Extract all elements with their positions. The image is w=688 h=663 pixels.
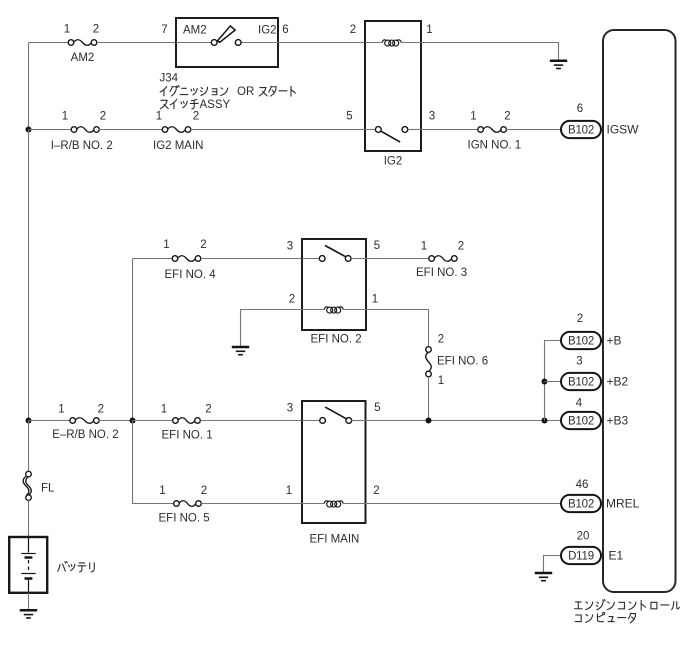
wire to ground [544,556,562,573]
wire to ground [241,310,303,347]
coil EFI MAIN [324,501,343,507]
label engine control computer [574,600,679,611]
wire [241,42,278,44]
wire riser to +B [545,341,562,421]
wire [366,258,429,260]
wire [366,310,429,347]
svg-text:1: 1 [58,404,64,416]
battery internals [21,537,35,593]
ground EFI NO.2 [232,347,249,355]
svg-text:IG2: IG2 [384,156,403,168]
coil EFI NO.2 [324,307,343,313]
svg-text:2: 2 [100,111,106,123]
junction dot left rail row E [26,418,32,424]
svg-text:E–R/B NO. 2: E–R/B NO. 2 [52,429,118,441]
wire [97,42,176,44]
wire [28,421,30,472]
svg-text:2: 2 [201,485,207,497]
wire [506,129,561,131]
wire [366,420,562,422]
svg-text:D119: D119 [568,551,594,563]
svg-text:20: 20 [577,531,590,543]
relay IG2 box [365,21,421,151]
svg-text:MREL: MREL [606,497,640,511]
svg-text:3: 3 [287,403,293,415]
svg-text:IGN NO. 1: IGN NO. 1 [468,140,522,152]
wire left rail upper [28,43,30,130]
wire [351,258,366,260]
svg-text:EFI NO. 5: EFI NO. 5 [159,513,210,525]
fusible link FL [23,471,31,500]
svg-text:EFI NO. 4: EFI NO. 4 [165,269,217,281]
svg-text:2: 2 [438,334,444,346]
wire [365,42,382,44]
svg-text:2: 2 [93,24,99,36]
wire [99,420,131,422]
wire elbow x132 [133,421,174,504]
svg-text:1: 1 [426,24,432,36]
switch contact EFI NO.2 [319,246,351,262]
junction dot x132 [130,418,136,424]
switch contact EFI MAIN [320,407,352,423]
svg-text:5: 5 [374,402,380,414]
svg-text:ASSY: ASSY [200,99,231,111]
svg-text:46: 46 [576,479,589,491]
svg-text:1: 1 [421,241,427,253]
label switch assy [160,99,198,109]
svg-text:J34: J34 [160,73,179,85]
svg-text:1: 1 [163,239,169,251]
svg-text:B102: B102 [568,125,594,137]
svg-text:FL: FL [41,483,55,495]
svg-text:1: 1 [62,111,68,123]
wire to ground [421,43,559,61]
svg-text:EFI NO. 3: EFI NO. 3 [416,267,467,279]
coil IG2 [382,40,401,46]
svg-text:IGSW: IGSW [607,123,640,137]
svg-text:7: 7 [161,24,167,36]
svg-text:B102: B102 [568,377,594,389]
junction dot x428 [426,418,432,424]
svg-text:2: 2 [458,241,464,253]
svg-text:2: 2 [193,111,199,123]
svg-text:1: 1 [64,24,70,36]
wire [201,503,302,505]
svg-text:3: 3 [576,356,582,368]
wire [343,309,366,311]
svg-text:+B3: +B3 [607,414,629,428]
relay EFI NO.2 box [302,239,366,330]
wire [29,42,69,44]
svg-text:EFI MAIN: EFI MAIN [310,534,360,546]
junction dot +B2 [542,379,548,385]
wire [278,42,365,44]
fuse EFI NO.3 [429,256,457,262]
svg-text:2: 2 [373,485,379,497]
wire [366,503,562,505]
svg-text:IG2: IG2 [258,25,277,37]
ignition switch J34 box [176,18,278,67]
wire [428,377,430,421]
wire [133,258,173,260]
wire [401,42,421,44]
svg-text:2: 2 [200,239,206,251]
svg-text:2: 2 [289,294,295,306]
fuse IGN NO.1 [478,127,507,133]
wire riser x132 [132,259,134,421]
switch contact AM2-IG2 [211,26,241,45]
wire [99,129,162,131]
connector B102 +B [561,332,601,349]
wire [365,129,375,131]
svg-text:E1: E1 [609,549,624,563]
junction dot left rail row B [26,127,32,133]
switch contact IG2 [375,127,407,143]
svg-text:EFI NO. 2: EFI NO. 2 [311,333,362,345]
svg-text:EFI NO. 1: EFI NO. 1 [162,430,213,442]
svg-text:IG2 MAIN: IG2 MAIN [153,140,203,152]
wire [352,420,366,422]
wire [302,258,319,260]
svg-text:2: 2 [577,313,583,325]
svg-text:2: 2 [504,111,510,123]
wire [133,420,173,422]
wire [343,503,365,505]
svg-text:B102: B102 [568,499,594,511]
wire [176,42,211,44]
fuse EFI NO.5 [174,501,202,507]
svg-text:AM2: AM2 [183,25,207,37]
svg-text:1: 1 [156,111,162,123]
ground E1 [535,573,552,581]
wire [28,593,30,610]
wire [28,500,30,537]
label ignition-or-start line [160,86,228,96]
svg-text:5: 5 [374,240,380,252]
connector D119 E1 [561,547,601,564]
wire [29,129,72,131]
svg-text:2: 2 [205,404,211,416]
fuse I-R/B NO.2 [71,127,99,133]
connector B102 +B2 [561,373,601,390]
svg-text:1: 1 [438,375,444,387]
svg-text:1: 1 [159,485,165,497]
ground top-right [550,61,567,69]
svg-text:AM2: AM2 [71,52,95,64]
wire [408,129,421,131]
wire [29,420,70,422]
svg-text:OR: OR [237,86,254,98]
fuse IG2 MAIN [162,127,191,133]
ECU engine control computer box [603,30,676,592]
svg-text:+B: +B [607,334,622,348]
wire [191,129,365,131]
svg-text:1: 1 [470,111,476,123]
wire [545,381,562,383]
svg-text:1: 1 [372,294,378,306]
wire [302,309,324,311]
wire [201,258,302,260]
svg-text:2: 2 [98,404,104,416]
wire [302,503,324,505]
svg-text:1: 1 [286,485,292,497]
fuse EFI NO.4 [172,256,201,262]
wire [200,420,302,422]
label battery [58,561,95,572]
svg-text:B102: B102 [568,416,594,428]
svg-text:3: 3 [287,241,293,253]
connector B102 MREL [561,495,601,512]
svg-text:EFI NO. 6: EFI NO. 6 [437,356,488,368]
svg-text:3: 3 [429,110,435,122]
svg-text:5: 5 [346,110,352,122]
battery box [9,537,47,593]
svg-text:+B2: +B2 [607,375,629,389]
svg-text:2: 2 [350,24,356,36]
junction dot x544 [542,418,548,424]
svg-text:4: 4 [576,398,583,410]
connector B102 +B3 [561,412,601,429]
connector B102 IGSW [561,121,601,138]
svg-text:6: 6 [282,24,288,36]
svg-text:B102: B102 [568,336,594,348]
svg-text:1: 1 [161,404,167,416]
relay EFI MAIN box [302,401,366,523]
svg-text:6: 6 [577,103,583,115]
fuse EFI NO.1 [173,418,201,424]
svg-text:I–R/B NO. 2: I–R/B NO. 2 [51,140,113,152]
fuse AM2 [68,40,97,46]
fusible link EFI NO.6 [426,347,432,377]
wire [421,129,478,131]
wire [302,420,320,422]
fuse E-R/B NO.2 [70,418,99,424]
ground battery [20,610,37,618]
wire left rail [28,130,30,421]
